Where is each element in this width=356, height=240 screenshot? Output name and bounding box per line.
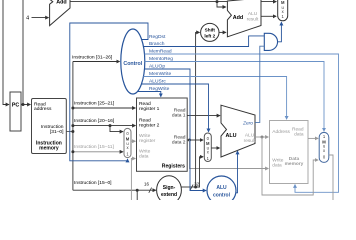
svg-text:Instruction [31–26]: Instruction [31–26]: [72, 55, 113, 61]
wire ALU result wrap to right mux input 0: [262, 137, 318, 195]
oval ALU control: [207, 176, 236, 205]
register PC: [10, 92, 21, 131]
svg-text:[31–0]: [31–0]: [50, 129, 64, 135]
wire ALUSrc mux to ALU: [211, 147, 219, 149]
wire Instruction[20-16] branch to RegDst mux input 0: [110, 126, 123, 132]
svg-text:Instruction [25–21]: Instruction [25–21]: [74, 101, 115, 107]
wire RegDst to write-register mux select (wraps left): [70, 23, 148, 161]
wire PC write-back vertical (left edge): [3, 0, 9, 105]
wire MemtoReg to right mux select: [145, 62, 324, 132]
wire Instruction[31-26] to Control: [72, 55, 120, 62]
node sign-extend output junction: [194, 186, 197, 189]
svg-text:Sign-: Sign-: [163, 185, 176, 191]
svg-text:data 2: data 2: [172, 139, 186, 145]
wire Read data 2 to ALUSrc mux: [187, 139, 203, 141]
svg-text:MemRead: MemRead: [149, 48, 172, 54]
svg-text:ALU: ALU: [248, 11, 258, 17]
label 32 with slash: [190, 181, 199, 189]
svg-text:ALU: ALU: [225, 133, 236, 139]
wire Instruction[5-0] stub down: [136, 190, 138, 200]
svg-text:MemWrite: MemWrite: [149, 71, 171, 77]
wire instruction bus vertical: [72, 62, 74, 191]
svg-text:data: data: [272, 162, 282, 168]
wire right mux output down (write-back): [329, 155, 333, 200]
wire Instruction[15-11] to RegDst mux input 1: [71, 144, 122, 154]
wire MemWrite to data memory top: [143, 77, 286, 120]
wire PC+4 result to PCSrc mux: [70, 1, 276, 3]
svg-text:ALUOp: ALUOp: [149, 63, 165, 69]
register file Registers: [137, 98, 188, 171]
wire Instruction[15-0] to sign extend: [73, 180, 156, 190]
wire PC+4 into branch Add: [217, 2, 226, 7]
node Read data 2 junction: [188, 139, 191, 142]
svg-text:4: 4: [26, 16, 29, 22]
svg-text:Add: Add: [56, 0, 66, 6]
node Instruction[5-0] junction: [136, 189, 139, 192]
svg-text:16: 16: [144, 181, 149, 186]
alu ALU: [221, 105, 256, 157]
wire AND output to PCSrc mux select: [278, 22, 282, 42]
wire Instruction[20-16] to Read register 2: [71, 118, 135, 127]
node PC+4 branch junction: [216, 0, 219, 3]
wire Read data to right mux input 1: [308, 137, 318, 139]
node ALU result junction: [261, 136, 264, 139]
wire MemRead to data memory (wraps right/bottom): [145, 54, 339, 192]
wire 4 into Add: [32, 17, 49, 19]
oval Sign-extend: [157, 176, 182, 204]
svg-text:memory: memory: [285, 161, 304, 167]
gate AND (branch and zero): [264, 33, 277, 50]
wire write-back to Registers Write data: [131, 159, 135, 201]
oval Shift left 2: [201, 23, 219, 41]
svg-text:Branch: Branch: [149, 41, 165, 47]
wire RegWrite to Registers: [137, 92, 160, 97]
node imem output junction: [71, 130, 74, 133]
label 16 with slash: [144, 181, 152, 192]
svg-text:Control: Control: [123, 61, 142, 67]
wire ALUOp to ALU control: [145, 69, 206, 191]
svg-text:data: data: [294, 131, 304, 137]
wire Branch to AND gate: [143, 36, 264, 47]
wire shift left 2 to branch Add: [219, 31, 226, 33]
mux MemtoReg (right): [319, 132, 329, 162]
wire ALUSrc to ALUSrc mux select: [142, 84, 209, 132]
wire sign-extend to ALUSrc mux input 1: [196, 157, 203, 187]
svg-text:32: 32: [194, 181, 199, 186]
svg-text:data: data: [139, 154, 149, 160]
mux RegDst (write register mux): [124, 128, 131, 157]
svg-text:memory: memory: [39, 146, 59, 152]
svg-text:Add: Add: [233, 15, 243, 21]
svg-text:Instruction [20–16]: Instruction [20–16]: [74, 118, 115, 124]
svg-text:ALU: ALU: [245, 133, 255, 139]
svg-text:control: control: [213, 192, 231, 198]
wire RegDst mux to Write register: [131, 140, 135, 142]
svg-text:data 1: data 1: [172, 112, 186, 118]
wire PC to instruction memory: [21, 104, 30, 106]
svg-text:RegWrite: RegWrite: [149, 86, 170, 92]
mux PCSrc (top right): [278, 0, 288, 21]
svg-text:Shift: Shift: [205, 28, 216, 33]
memory Data memory: [270, 121, 309, 184]
svg-text:Instruction [15–0]: Instruction [15–0]: [74, 180, 112, 186]
svg-text:ALUSrc: ALUSrc: [149, 78, 166, 84]
wire Zero to AND gate: [255, 46, 264, 122]
svg-text:Instruction [15–11]: Instruction [15–11]: [74, 144, 115, 150]
wire sign-extend output: [181, 186, 196, 188]
wire sign-extend up to shift left 2: [196, 32, 200, 187]
wire ALU control to ALU: [236, 151, 238, 193]
wire Instruction[25-21] to Read register 1: [71, 101, 135, 110]
wire instruction memory output to bus: [66, 131, 73, 133]
mux ALUSrc: [204, 133, 211, 162]
wire branch target to PCSrc mux: [261, 15, 276, 17]
svg-text:PC: PC: [12, 102, 20, 108]
wire Read data 2 to memory Write data: [190, 140, 269, 169]
memory Instruction memory: [32, 99, 67, 154]
wire ALU result to data memory Address: [255, 136, 268, 138]
node branch junction: [109, 124, 112, 127]
svg-text:register: register: [139, 138, 156, 144]
svg-text:extend: extend: [161, 192, 177, 198]
svg-text:Address: Address: [272, 129, 290, 135]
wire Read data 1 to ALU: [187, 115, 220, 117]
svg-text:register 2: register 2: [139, 122, 160, 128]
svg-text:register 1: register 1: [139, 106, 160, 112]
svg-text:left 2: left 2: [204, 34, 215, 39]
svg-text:Zero: Zero: [242, 121, 253, 127]
svg-text:Registers: Registers: [162, 164, 185, 170]
svg-text:RegDst: RegDst: [149, 34, 166, 40]
svg-text:result: result: [244, 138, 256, 144]
wire PC to Add (vertical riser): [22, 0, 24, 105]
svg-text:address: address: [34, 106, 52, 112]
adder Add (PC+4): [50, 0, 70, 26]
svg-text:result: result: [247, 16, 259, 22]
control unit Control: [121, 29, 145, 94]
node PC output junction: [22, 103, 25, 106]
svg-text:ALU: ALU: [216, 185, 227, 191]
adder Add ALU result (branch target): [227, 0, 261, 37]
svg-text:MemtoReg: MemtoReg: [149, 56, 173, 62]
